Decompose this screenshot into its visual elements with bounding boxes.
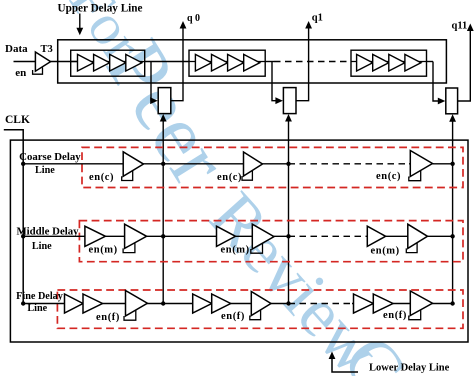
label Upper Delay Line xyxy=(58,2,143,14)
buffer 3 of 1 xyxy=(110,54,126,71)
buffer 4 of 1 xyxy=(126,54,142,71)
watermark word Peer xyxy=(88,25,246,201)
svg-text:Data: Data xyxy=(5,43,28,55)
buffer fine 3c en(f) xyxy=(410,291,432,316)
buffer coarse 1 en(c) xyxy=(123,152,143,177)
label en(c) 2 xyxy=(217,172,242,183)
label en(m) 3 xyxy=(371,246,400,257)
label Coarse Delay xyxy=(19,151,81,163)
label Line (fine) xyxy=(27,303,47,314)
buffer middle 1b en(m) xyxy=(125,224,147,248)
wire inside 2 xyxy=(189,61,265,63)
svg-text:en(c): en(c) xyxy=(217,172,242,183)
label q 0 xyxy=(187,13,200,24)
wire latch L3 output to q xyxy=(458,24,474,102)
label en xyxy=(15,67,26,79)
label Line (middle) xyxy=(32,241,52,252)
wire after box3 xyxy=(427,61,434,63)
svg-text:Line: Line xyxy=(32,241,52,252)
svg-text:en(f): en(f) xyxy=(383,310,407,321)
junction dot fine tap1 xyxy=(161,301,165,305)
svg-text:en(f): en(f) xyxy=(221,311,245,322)
wire stub after box2 xyxy=(265,61,274,63)
wire middle delay line (solid) xyxy=(23,235,288,237)
enable tail coarse 3 xyxy=(409,170,421,180)
buffer fine 1c en(f) xyxy=(126,291,148,317)
wire CLK xyxy=(4,130,23,304)
svg-text:Fine Delay: Fine Delay xyxy=(16,291,63,302)
svg-text:Middle Delay: Middle Delay xyxy=(16,225,79,237)
label en(m) 2 xyxy=(221,245,250,256)
buffer 1 of 2 xyxy=(195,54,211,71)
svg-text:en(c): en(c) xyxy=(89,172,114,183)
wire inside 1 xyxy=(71,61,145,63)
wire fine delay line (solid) xyxy=(23,303,288,305)
buffer 2 of 2 xyxy=(212,54,228,71)
latch L3 xyxy=(446,88,458,114)
svg-text:Coarse Delay: Coarse Delay xyxy=(19,151,81,163)
buffer 3 of 2 xyxy=(228,54,244,71)
enable tail middle 2 xyxy=(251,243,263,253)
clk line into latch L1 xyxy=(160,114,167,304)
junction dot CLK/coarse xyxy=(21,162,25,166)
junction dot middle tap3 xyxy=(450,234,454,238)
wire latch L1 output to q xyxy=(171,21,187,101)
junction dot CLK/middle xyxy=(21,234,25,238)
buffer fine 3a xyxy=(354,294,374,313)
label en(f) 1 xyxy=(96,312,120,323)
label en(f) 2 xyxy=(221,311,245,322)
junction dot middle tap1 xyxy=(161,234,165,238)
red dashed box middle delay line xyxy=(79,221,463,262)
wire T3 to upper box xyxy=(51,61,78,63)
label T3 xyxy=(41,44,53,55)
watermark word Copy xyxy=(326,321,474,376)
label Fine Delay xyxy=(16,291,63,302)
buffer fine 1b xyxy=(83,294,103,313)
buffer middle 1a xyxy=(85,226,106,246)
wire latch L2 output to q xyxy=(296,21,312,101)
tri-state buffer T3 xyxy=(35,52,50,71)
wire box1 to box2 xyxy=(145,61,189,63)
label en(c) 3 xyxy=(376,171,401,182)
label q1 xyxy=(312,13,323,24)
enable tail of T3 xyxy=(33,68,43,75)
svg-text:Line: Line xyxy=(27,303,47,314)
buffer 4 of 3 xyxy=(405,54,421,71)
wire tap 2 down from delay line xyxy=(272,62,283,105)
delay stage box 1 xyxy=(71,50,145,76)
svg-text:en(f): en(f) xyxy=(96,312,120,323)
delay stage box 3 xyxy=(351,50,427,76)
label Data xyxy=(5,43,28,55)
watermark word Review xyxy=(194,178,395,376)
watermark word For xyxy=(57,0,156,73)
wire middle delay line (dashed) xyxy=(289,235,368,237)
svg-text:Upper Delay Line: Upper Delay Line xyxy=(58,2,143,14)
svg-text:en(c): en(c) xyxy=(376,171,401,182)
wire fine delay line (right) xyxy=(352,303,453,305)
enable tail middle 1 xyxy=(123,243,135,253)
label Middle Delay xyxy=(16,225,79,237)
junction dot coarse tap3 xyxy=(450,162,454,166)
svg-text:en(m): en(m) xyxy=(221,245,250,256)
arrow from label to upper delay line box xyxy=(76,14,83,36)
buffer middle 3b en(m) xyxy=(408,224,428,248)
wire coarse delay line (solid) xyxy=(23,163,288,165)
svg-text:CLK: CLK xyxy=(5,114,30,126)
enable tail fine 3 xyxy=(409,310,421,320)
buffer middle 2a xyxy=(217,226,236,246)
wire coarse delay line (right) xyxy=(409,163,453,165)
svg-text:en: en xyxy=(15,67,26,79)
svg-text:T3: T3 xyxy=(41,44,53,55)
wire Data input xyxy=(14,61,36,63)
junction dot coarse tap2 xyxy=(286,162,290,166)
label CLK xyxy=(5,114,30,126)
buffer middle 2b en(m) xyxy=(252,224,274,249)
buffer coarse 2 en(c) xyxy=(244,152,263,176)
buffer fine 2a xyxy=(193,294,212,313)
buffer 2 of 1 xyxy=(94,54,110,71)
junction dot coarse tap1 xyxy=(161,162,165,166)
upper delay line outer box xyxy=(58,40,447,83)
wire coarse delay line (dashed) xyxy=(289,163,410,165)
label en(f) 3 xyxy=(383,310,407,321)
enable tail coarse 1 xyxy=(122,171,133,181)
wire inside 3 xyxy=(351,61,427,63)
buffer 1 of 1 xyxy=(78,54,94,71)
buffer middle 3a xyxy=(367,226,385,246)
svg-text:q1: q1 xyxy=(312,13,323,24)
wire tap 1 down from delay line xyxy=(150,62,158,105)
svg-text:q11: q11 xyxy=(452,21,468,32)
buffer fine 3b xyxy=(373,294,393,313)
label en(m) 1 xyxy=(89,245,118,256)
delay stage box 2 xyxy=(189,50,265,76)
buffer fine 1a xyxy=(65,294,84,313)
label Line (coarse) xyxy=(35,165,55,176)
svg-text:Line: Line xyxy=(35,165,55,176)
red dashed box coarse delay line xyxy=(82,147,463,187)
junction dot CLK/fine xyxy=(21,301,25,305)
arrow to lower delay line xyxy=(329,352,358,373)
latch L1 xyxy=(158,88,171,114)
buffer 1 of 3 xyxy=(357,54,373,71)
buffer 2 of 3 xyxy=(373,54,389,71)
label en(c) 1 xyxy=(89,172,114,183)
junction dot middle tap2 xyxy=(286,234,290,238)
lower delay lines outer box xyxy=(10,140,468,342)
enable tail middle 3 xyxy=(406,243,417,253)
clk line into latch L3 xyxy=(449,114,456,303)
label q11 xyxy=(452,21,468,32)
enable tail coarse 2 xyxy=(242,170,252,180)
svg-text:en(m): en(m) xyxy=(371,246,400,257)
enable tail fine 1 xyxy=(124,310,136,320)
buffer 4 of 2 xyxy=(244,54,260,71)
buffer coarse 3 en(c) xyxy=(410,151,432,177)
label Lower Delay Line xyxy=(369,363,450,374)
red dashed box fine delay line xyxy=(57,290,463,328)
buffer 3 of 3 xyxy=(389,54,405,71)
wire middle delay line (right) xyxy=(367,235,452,237)
enable tail fine 2 xyxy=(250,310,261,320)
wire fine delay line (dashed) xyxy=(289,303,353,305)
buffer fine 2c en(f) xyxy=(251,292,271,316)
buffer fine 2b xyxy=(212,294,231,313)
wire tap 3 down from delay line xyxy=(433,62,445,105)
svg-text:q 0: q 0 xyxy=(187,13,200,24)
dashed wire box2 to box3 xyxy=(274,61,351,63)
latch L2 xyxy=(283,88,296,114)
clk line into latch L2 xyxy=(285,114,292,304)
svg-text:en(m): en(m) xyxy=(89,245,118,256)
junction dot fine tap3 xyxy=(450,301,454,305)
junction dot fine tap2 xyxy=(286,301,290,305)
svg-text:Lower Delay Line: Lower Delay Line xyxy=(369,363,450,374)
